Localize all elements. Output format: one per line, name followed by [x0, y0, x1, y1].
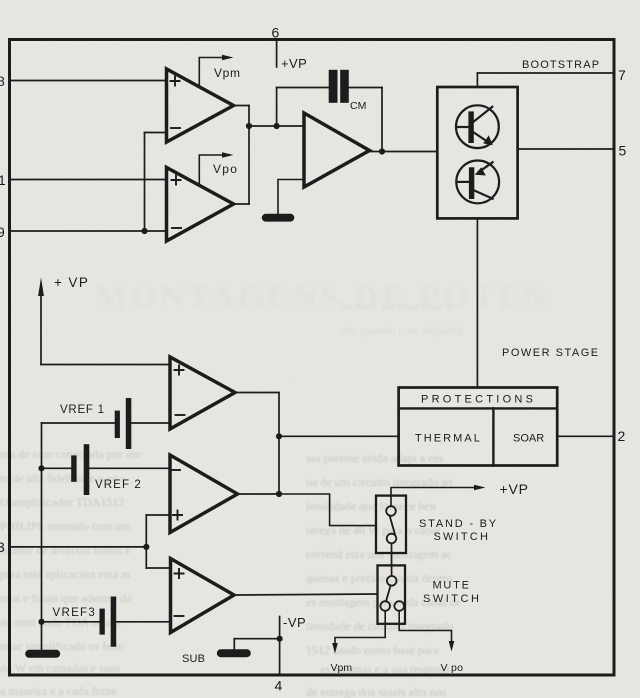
battery VREF1 — [115, 398, 132, 449]
svg-text:6: 6 — [272, 25, 280, 41]
wire pin 8 to op-amp U1 + input — [11, 80, 167, 82]
svg-text:O amplificador TDA1512: O amplificador TDA1512 — [0, 495, 124, 509]
wire A6 output to mute switch — [234, 594, 378, 595]
svg-text:THERMAL: THERMAL — [415, 433, 482, 445]
svg-text:9: 9 — [0, 224, 5, 240]
stand-by switch contacts — [386, 506, 396, 543]
node pin3 junction — [143, 544, 149, 550]
wire protections input from A4 node — [279, 435, 399, 437]
stand-by switch box — [376, 496, 406, 553]
svg-text:BOOTSTRAP: BOOTSTRAP — [522, 59, 600, 71]
svg-text:4: 4 — [275, 678, 283, 694]
svg-text:2: 2 — [618, 428, 626, 444]
node junction CM tap — [274, 123, 280, 129]
svg-text:SUB: SUB — [182, 653, 205, 665]
svg-text:3: 3 — [0, 539, 5, 555]
node U3 output — [379, 148, 385, 154]
wire summing node to U3 input — [249, 125, 304, 127]
svg-text:PHILIPS montado com um: PHILIPS montado com um — [0, 519, 132, 533]
svg-text:+ VP: + VP — [54, 275, 89, 290]
wire CM branch vertical — [276, 88, 278, 127]
svg-text:+VP: +VP — [281, 56, 307, 71]
protections box — [399, 388, 558, 466]
wire power stage to pin 5 — [518, 148, 613, 150]
wire bootstrap vertical — [476, 73, 478, 87]
wire A4 output — [235, 392, 279, 394]
wire feedback U1 - input vertical — [144, 133, 146, 232]
wire CM to U3 output — [381, 88, 383, 152]
svg-text:ionalidade que fornece ben: ionalidade que fornece ben — [306, 499, 436, 513]
svg-text:den quando com adquirid: den quando com adquirid — [340, 323, 462, 337]
wire U1 output — [234, 105, 250, 107]
wire SUB vertical — [233, 639, 235, 650]
wire stand-by to +VP — [391, 488, 474, 507]
wire VREF3 to A6 - input — [116, 621, 171, 623]
svg-text:Vpo: Vpo — [213, 162, 238, 176]
op-amp A4 — [170, 357, 235, 429]
wire A4 output vertical — [278, 393, 280, 495]
wire outputs joining vertical — [248, 106, 250, 205]
svg-text:1: 1 — [0, 172, 6, 188]
svg-text:1512 usado como base para: 1512 usado como base para — [306, 643, 439, 657]
svg-text:VREF 1: VREF 1 — [60, 404, 105, 416]
svg-text:CM: CM — [350, 100, 366, 112]
wire to A5 + input — [146, 514, 170, 516]
capacitor CM — [329, 70, 349, 103]
svg-text:ora de som conectada por um: ora de som conectada por um — [0, 447, 142, 461]
SUB substrate bar — [217, 649, 251, 657]
node junction pin9/feedback — [141, 228, 147, 234]
wire protections to pin 2 — [557, 435, 613, 437]
battery VREF2 — [71, 444, 89, 495]
wire power stage to protections — [476, 218, 478, 387]
wire VREF2 left — [42, 467, 72, 469]
svg-text:PROTECTIONS: PROTECTIONS — [421, 394, 536, 406]
wire CM left — [277, 87, 329, 89]
wire pin 1 to op-amp U2 + input — [11, 179, 167, 181]
op-amp A6 — [171, 559, 235, 633]
wire reference chain vertical — [41, 423, 43, 650]
node pin4 junction — [277, 636, 283, 642]
svg-text:-VP: -VP — [283, 615, 306, 630]
power stage box — [437, 87, 517, 218]
wire VREF3 left — [42, 621, 100, 623]
ground lower-left — [25, 650, 60, 658]
wire VREF1 to A4 - input — [131, 422, 170, 424]
node A5 output junction — [276, 491, 282, 497]
transistor Q2 (PNP lower) — [456, 161, 499, 204]
node VREF2 junction — [38, 465, 44, 471]
svg-text:SOAR: SOAR — [513, 433, 544, 445]
svg-text:licador de diversas fontes e: licador de diversas fontes e — [0, 543, 131, 557]
wire bootstrap to pin 7 — [477, 72, 613, 74]
wire +VP to A4 + input — [41, 364, 170, 366]
svg-text:+VP: +VP — [500, 481, 529, 497]
svg-text:8: 8 — [0, 73, 5, 89]
wire pin 6 +VP stub — [276, 41, 278, 67]
svg-text:de entrega dos sinais alto nos: de entrega dos sinais alto nos — [306, 685, 447, 698]
svg-text:SWITCH: SWITCH — [434, 531, 491, 543]
op-amp U3 — [304, 113, 370, 187]
mute switch contacts — [380, 576, 404, 611]
svg-text:estar simplificado os feito: estar simplificado os feito — [0, 639, 124, 653]
mute switch box — [378, 565, 406, 623]
op-amp U1 — [167, 69, 234, 142]
svg-text:quenas e preciso circuit dentr: quenas e preciso circuit dentro — [306, 571, 453, 585]
wire CM right — [349, 87, 382, 89]
wire U1 - input horizontal — [145, 132, 167, 134]
wire U3 output to power stage — [370, 151, 438, 153]
svg-text:5: 5 — [619, 143, 627, 159]
op-amp U2 — [167, 168, 234, 242]
battery VREF3 — [100, 597, 117, 647]
svg-text:VREF3: VREF3 — [53, 607, 97, 619]
svg-text:Vpm: Vpm — [331, 662, 353, 674]
+VP supply arrow lower-left — [40, 294, 42, 365]
op-amp A5 — [170, 455, 238, 533]
wire stand-by to mute — [391, 543, 393, 576]
transistor Q1 (NPN upper) — [456, 105, 499, 148]
wire U3 lower input — [278, 180, 304, 215]
arrow Vpo top — [199, 155, 222, 186]
svg-text:SWITCH: SWITCH — [423, 593, 481, 605]
svg-text:MONTAGENS DE POTEN: MONTAGENS DE POTEN — [95, 279, 551, 316]
wire mute output Vpm — [335, 611, 385, 644]
wire U2 output — [234, 203, 250, 205]
wire VREF1 left — [42, 422, 116, 424]
wire VREF2 to A5 - input — [89, 467, 170, 469]
wire to pin 4 — [279, 639, 281, 674]
wire to A6 + input — [146, 567, 170, 569]
svg-text:V po: V po — [441, 662, 464, 674]
svg-text:Vpm: Vpm — [214, 66, 241, 80]
node protections tap — [276, 433, 282, 439]
wire to stand-by switch — [279, 494, 376, 526]
wire mute output Vpo — [399, 611, 451, 642]
ground below U3 — [262, 214, 295, 222]
wire pin 3 — [11, 546, 146, 548]
node VREF3 junction — [38, 619, 44, 625]
svg-text:POWER STAGE: POWER STAGE — [502, 347, 600, 359]
wire -VP tick — [279, 617, 281, 639]
svg-text:do W em camadas e suas: do W em camadas e suas — [0, 661, 120, 675]
wire pin 9 to op-amp U2 - input — [11, 230, 167, 232]
svg-text:7: 7 — [618, 67, 626, 83]
svg-text:VREF 2: VREF 2 — [95, 479, 142, 491]
arrow Vpm top — [199, 58, 222, 87]
svg-text:STAND - BY: STAND - BY — [419, 518, 498, 530]
svg-text:ssa potente ainda adapt a ess: ssa potente ainda adapt a ess — [306, 451, 443, 465]
wire A5 output — [238, 493, 280, 495]
node junction outputs — [246, 123, 252, 129]
wire SUB horizontal — [234, 638, 279, 640]
svg-text:para esta aplicacoes essa m: para esta aplicacoes essa m — [0, 567, 131, 581]
svg-text:MUTE: MUTE — [433, 580, 471, 592]
svg-text:a maneira e a cada forne: a maneira e a cada forne — [0, 684, 117, 698]
wire pin3 branch vertical — [145, 515, 147, 568]
